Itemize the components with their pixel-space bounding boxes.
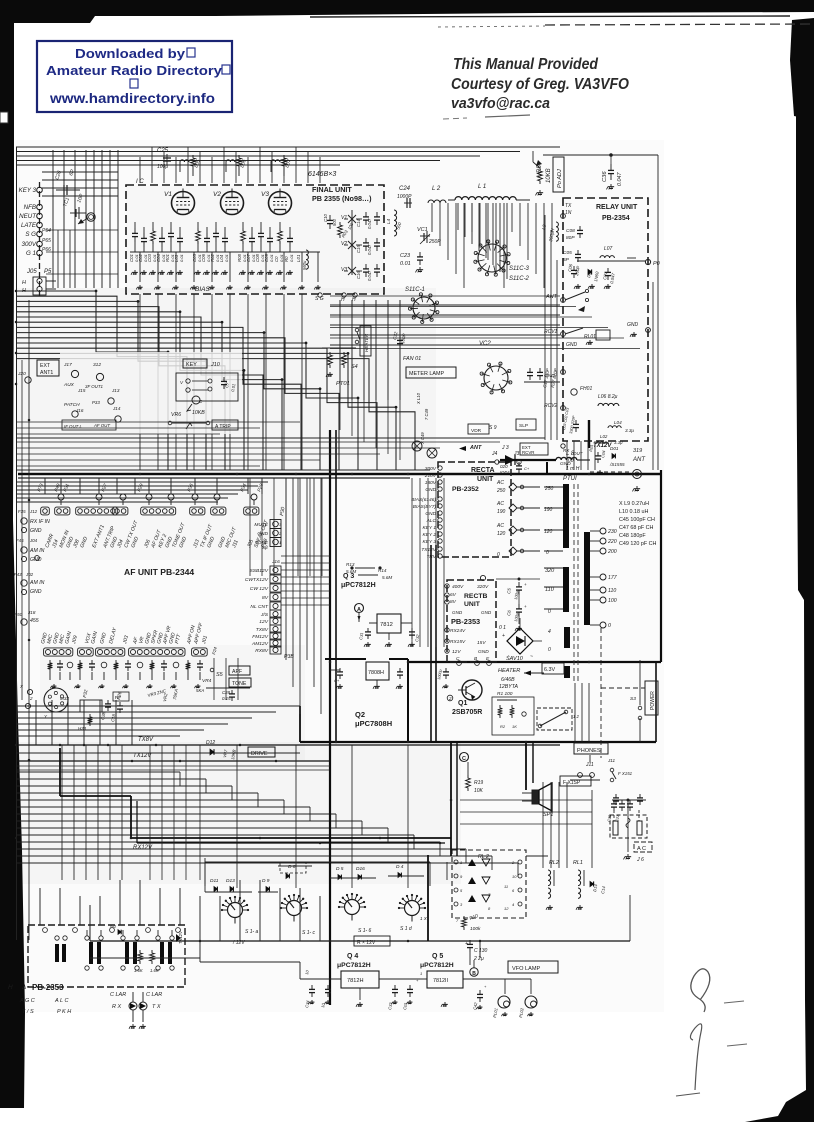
transformer tap labels 320 110 <box>544 568 563 653</box>
rotary wafer S1-b <box>338 893 390 946</box>
connector row J-series plugs <box>41 494 259 515</box>
IF unit small parts <box>43 924 183 973</box>
rect B unit PB-2353 dashed box <box>447 580 496 662</box>
wire TX8V line <box>16 737 560 745</box>
potentiometer VR5 10KB <box>533 151 552 195</box>
svg-text:This Manual Provided: This Manual Provided <box>453 56 598 73</box>
wire af mid verticals <box>150 745 200 880</box>
antenna jack J19 <box>590 448 646 491</box>
box 6.3V <box>542 663 564 674</box>
trimmer cluster C17 R27 <box>524 368 560 388</box>
relay unit PB-2354 dashed box <box>563 198 648 441</box>
left bar notch <box>0 112 8 123</box>
regulator chip 7808H box <box>330 662 403 689</box>
pen scratch under note <box>443 118 467 119</box>
capacitor C26 6P <box>54 168 80 195</box>
wire speaker-relay corridor <box>460 782 592 868</box>
tube V1 6146B <box>164 189 195 215</box>
inductor L06 with resistor <box>226 155 248 176</box>
scan border right bar <box>745 60 814 1122</box>
phones small caps <box>607 800 633 822</box>
meter lamps ML01 <box>412 441 437 458</box>
tube V2 6146B <box>213 189 244 215</box>
microphone symbol <box>187 396 203 411</box>
box A TRIP <box>212 420 238 430</box>
coil list note <box>619 501 657 547</box>
wire thick vertical pair <box>330 430 336 1005</box>
regulator Q5 uPC7812H <box>420 953 495 1007</box>
box EXT ANT1 <box>17 360 59 383</box>
wire thick relay feed staircase <box>60 742 457 856</box>
svg-text:J3: J3 <box>513 451 520 457</box>
labels CLAR RX TX diodes <box>110 992 162 1029</box>
switch S2 contacts <box>610 768 632 782</box>
node B circled <box>470 960 478 977</box>
transformer PTU1 winding 320 <box>563 567 569 612</box>
transformer PTU1 core lines <box>574 484 578 683</box>
wire thick horizontal bus <box>18 474 660 478</box>
svg-text:J4: J4 <box>491 451 498 457</box>
capacitor C42 <box>472 984 487 1010</box>
scan border left bar <box>0 0 25 1108</box>
labels above connector row 2 <box>40 621 218 655</box>
svg-text:va3vfo@rac.ca: va3vfo@rac.ca <box>451 95 550 112</box>
transistor Q1 2SB705R <box>447 680 482 716</box>
wire left rails <box>17 147 30 940</box>
clearing behind jack clusters <box>60 352 242 434</box>
label FINAL UNIT PB 2355 <box>312 185 372 203</box>
handwritten note <box>451 56 629 112</box>
wire thick speaker feed <box>526 742 533 790</box>
wire staircase extenders <box>330 296 640 460</box>
regulator chip 7812 box <box>358 614 420 647</box>
rotary wafer S1-d <box>398 894 428 932</box>
switch S4 heater <box>351 326 371 370</box>
final unit PB-2355 dashed box <box>126 185 384 294</box>
diodes D5 D16 <box>336 866 365 879</box>
AF unit small parts cluster <box>48 660 203 702</box>
inductor L2 <box>428 186 446 203</box>
transformer PTU1 secondary bar <box>584 532 590 625</box>
wire bottom distribution <box>90 941 480 979</box>
relay contact block RL2 dashed <box>452 850 526 923</box>
inductor L05 with resistor <box>180 155 202 176</box>
inductor L4 500 <box>386 210 403 236</box>
diode D9 <box>262 878 270 891</box>
wire harness below bus <box>16 478 268 502</box>
labels RECT B <box>445 575 492 665</box>
label TX12V bold <box>589 420 612 449</box>
capacitor C23 0.01 <box>400 252 423 272</box>
transformer PTU1 winding aux <box>564 627 570 648</box>
connector P30 column <box>254 506 286 550</box>
wire lower harness <box>16 745 518 880</box>
diode D12 <box>206 740 237 760</box>
wire rectB bold pair <box>431 545 436 742</box>
rect A unit PB-2352 dashed box <box>438 462 511 557</box>
regulator Q3 uPC7812H <box>341 573 376 589</box>
AC inlet J6 <box>610 794 647 859</box>
transformer secondary taps <box>590 528 618 629</box>
wire right vertical bundle <box>653 200 658 470</box>
variable capacitor VC2 wafer <box>479 341 512 394</box>
antenna changeover contacts <box>544 289 650 445</box>
box VFO LAMP <box>508 961 558 973</box>
capacitor C22 100P <box>392 331 407 348</box>
box PHONES <box>570 743 616 780</box>
wire bottom-left verticals <box>40 880 320 941</box>
wire relay drop verticals <box>567 441 595 470</box>
wire TX12V line <box>16 753 330 761</box>
wire tank verticals <box>432 203 552 288</box>
labels HEATER 6146B 12BY7A <box>498 668 544 690</box>
diode D4 <box>396 864 404 877</box>
labels under connector row 1 <box>36 483 270 550</box>
resistors R13 R14 5.6M <box>346 562 392 580</box>
wire top-left grid extra <box>46 230 118 288</box>
resistor R10 100k <box>462 913 481 932</box>
label ANT arrow <box>459 445 521 464</box>
IF unit PB-2353 dashed box <box>28 925 185 987</box>
capacitors C5 C6 100u <box>496 578 540 631</box>
connector P3B column <box>245 559 294 660</box>
svg-text:www.hamdirectory.info: www.hamdirectory.info <box>49 91 215 106</box>
neutralizing capacitors C11-C16 column <box>341 210 380 281</box>
wire L1 tap verticals <box>458 203 507 279</box>
svg-text:ANT: ANT <box>469 445 482 451</box>
final unit bottom pins SG H H <box>315 293 357 303</box>
scan border top strip <box>0 0 814 23</box>
box DRIVE <box>248 747 275 757</box>
capacitor C10 500P <box>323 214 337 229</box>
box EXT SP <box>560 776 591 786</box>
wire wafer row links <box>205 855 447 941</box>
svg-text:Amateur Radio Directory: Amateur Radio Directory <box>46 63 223 78</box>
wire heater area verticals <box>575 628 645 758</box>
rotary switch S11C-3 S11C-2 <box>474 240 530 282</box>
stamp box Amateur Radio Directory <box>37 41 232 112</box>
trimmer TC1 10P <box>62 193 86 219</box>
lamps PL01 PL02 <box>492 979 537 1018</box>
capacitors around Q4 <box>304 969 422 1010</box>
wire af lower extras <box>16 658 330 770</box>
box POWER switch <box>630 660 658 742</box>
potentiometer VR6 10KB <box>168 410 210 429</box>
connector J05 P5 column <box>19 182 56 296</box>
label RELAY UNIT PB-2354 <box>596 204 638 222</box>
wire top horizontal bus <box>16 147 560 165</box>
jacks J17 J12 J15 J13 J16 J14 <box>62 362 121 430</box>
final unit internal capacitors and resistors <box>129 222 294 275</box>
transformer PT01 <box>322 348 356 387</box>
IF transformers T1 T2 T3 <box>55 930 174 970</box>
arrow to circled B <box>78 213 95 224</box>
box Po ADJ <box>553 157 564 192</box>
scan border top-right blob <box>790 18 814 120</box>
wire final unit drop verticals <box>140 294 302 470</box>
switch S5 APF TONE boxes <box>196 666 251 701</box>
scan tone overlay <box>16 140 664 1012</box>
labels RECT A <box>411 466 494 560</box>
boxes VDR SLP S9 <box>468 419 536 434</box>
transformer PTU1 winding 6.3V <box>564 666 570 678</box>
box AC J6 <box>634 842 652 863</box>
rotary switch S11C-1 <box>405 287 439 323</box>
switch S2 cluster <box>537 708 579 730</box>
regulator Q4 uPC7812H <box>300 953 420 1007</box>
wire pre-bus horizontals <box>16 438 545 470</box>
jacks RX IF IN AM IN 455 <box>14 509 50 625</box>
wire vertical drops to wafers <box>237 745 408 888</box>
inductor L8 1mH <box>500 451 590 474</box>
resistor R19 10K <box>466 762 484 794</box>
diode D8 <box>280 862 306 878</box>
svg-text:VDR: VDR <box>471 428 482 434</box>
rotary wafer S1-a <box>221 896 258 946</box>
wire mid horizontal links <box>330 300 560 400</box>
relay unit bottom pins <box>560 444 625 475</box>
capacitor C130 2.2u <box>465 940 488 965</box>
pots VR1 cluster <box>78 700 123 731</box>
pen scribble mark <box>691 969 710 1012</box>
svg-text:SLP: SLP <box>519 423 528 429</box>
speaker SP1 <box>522 783 553 818</box>
relay coils RL2 RL1 <box>526 856 606 910</box>
svg-text:H: H <box>8 984 13 991</box>
diodes D11 D13 <box>210 878 235 891</box>
inductor L07 with resistor <box>271 155 293 176</box>
rect A right taps <box>496 480 563 558</box>
wire left vertical feeders <box>42 150 118 288</box>
regulator Q2 uPC7808H <box>355 710 392 728</box>
resistor R03 100 <box>338 221 355 238</box>
node C circled <box>460 753 469 763</box>
rectifier bridge D1 S4V10 <box>499 618 542 662</box>
meter lamp box <box>406 367 456 378</box>
node A circled <box>355 604 364 623</box>
wire Q3 area verticals <box>250 478 444 647</box>
transistor heatsink parts <box>437 668 534 735</box>
wire extra pre-bus horizontals <box>16 215 557 440</box>
label PB-2353 bottom <box>8 983 64 992</box>
relay unit pins and parts <box>541 203 661 289</box>
rotary wafer S1-c <box>280 894 315 936</box>
svg-text:Downloaded by: Downloaded by <box>75 46 186 61</box>
final unit lower row grounds <box>130 252 321 290</box>
microphone jack MJ01 <box>19 684 68 719</box>
svg-text:1 2: 1 2 <box>573 714 579 719</box>
scan border top dashed line <box>545 24 810 25</box>
diode D20 to EXT RCVR <box>500 443 548 475</box>
inductor L1 <box>448 184 530 200</box>
wire thick Q-area loop <box>300 470 661 742</box>
wire mid harness <box>16 700 300 745</box>
wire upper staircase harness <box>16 290 415 470</box>
svg-text:S 9: S 9 <box>489 425 497 431</box>
transformer PTU1 primary bar <box>563 484 569 548</box>
wire P3B drop verticals <box>281 478 330 714</box>
tube V3 6146B <box>261 189 292 215</box>
capacitor C36 0.047 <box>543 154 658 200</box>
capacitor C24 1000P <box>397 186 412 208</box>
variable capacitor VC1 250P <box>417 227 441 245</box>
key jack box KEY J10 <box>176 359 238 401</box>
labels AGC ALC TS PKH <box>19 998 71 1015</box>
wire top feeders to final unit <box>140 147 320 183</box>
connector row J03 J09 J01 <box>44 648 208 656</box>
svg-text:Courtesy of Greg. VA3VFO: Courtesy of Greg. VA3VFO <box>451 76 629 93</box>
labels X L10 C49 <box>416 392 429 445</box>
capacitor C25 100p <box>157 148 171 170</box>
wire wafer bus <box>90 862 630 941</box>
choke L01 560u <box>296 250 308 270</box>
